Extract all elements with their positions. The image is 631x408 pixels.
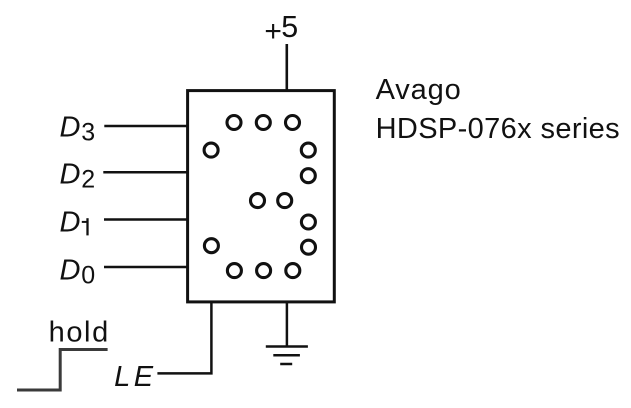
wire ground from display xyxy=(286,302,289,347)
svg-text:+: + xyxy=(264,15,282,48)
svg-text:3: 3 xyxy=(81,119,95,147)
LED dot row6 col2 xyxy=(257,264,271,278)
svg-text:hold: hold xyxy=(49,316,110,348)
LED dot row6 col3 xyxy=(286,264,300,278)
wire +5 supply to display xyxy=(285,44,288,92)
svg-text:2: 2 xyxy=(81,166,95,194)
LED dot row3 col3 xyxy=(278,194,292,208)
wire D2 xyxy=(103,171,187,174)
LED dot row1 col4 xyxy=(301,143,315,157)
LED dot row2 col4 xyxy=(301,169,315,183)
LED dot row5 col4 xyxy=(302,240,316,254)
LED dot row1 col0 xyxy=(204,143,218,157)
svg-text:HDSP-076x series: HDSP-076x series xyxy=(376,113,620,145)
hold step waveform xyxy=(17,350,108,391)
svg-text:D: D xyxy=(60,254,81,286)
LED dot row4 col4 xyxy=(301,215,315,229)
svg-text:D: D xyxy=(60,206,81,238)
wire D1 xyxy=(104,218,187,221)
svg-text:D: D xyxy=(60,111,81,143)
ground symbol xyxy=(266,347,308,365)
svg-text:0: 0 xyxy=(81,262,95,290)
svg-text:D: D xyxy=(60,158,81,190)
svg-text:5: 5 xyxy=(281,10,298,44)
wire LE to display xyxy=(157,302,211,373)
LED dot row5 col0 xyxy=(204,239,218,253)
wire D0 xyxy=(104,266,187,269)
LED dot row0 col1 xyxy=(227,116,241,130)
wire D3 xyxy=(104,125,187,128)
svg-text:LE: LE xyxy=(114,361,156,393)
display U1 package outline (HDSP-076x) xyxy=(188,91,335,302)
LED dot row6 col1 xyxy=(227,264,241,278)
svg-text:Avago: Avago xyxy=(376,74,462,106)
LED dot row0 col2 xyxy=(256,116,270,130)
LED dot row3 col2 xyxy=(251,194,265,208)
LED dot row0 col3 xyxy=(286,116,300,130)
